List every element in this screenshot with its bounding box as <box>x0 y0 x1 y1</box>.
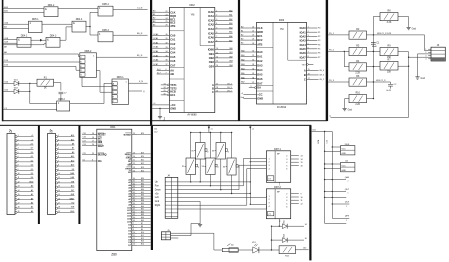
svg-text:CA2: CA2 <box>170 42 176 46</box>
wire R8 out to ground <box>398 16 409 18</box>
wire C05 into bottom-right sheet <box>312 131 333 133</box>
wire D14 long horizontal <box>3 61 79 63</box>
wire R7 out join audio column <box>398 65 409 67</box>
svg-text:4: 4 <box>425 59 426 61</box>
wires to U4 <box>325 163 341 165</box>
DD2 pin OE1 <box>209 52 233 56</box>
svg-text:B34: B34 <box>141 189 144 191</box>
svg-text:22: 22 <box>252 35 254 37</box>
svg-text:2.2K: 2.2K <box>355 72 360 74</box>
wire DD7.2 down to diode row <box>278 219 280 227</box>
svg-text:CH_2: CH_2 <box>227 90 232 92</box>
svg-text:4: 4 <box>18 148 19 150</box>
diode VD1 <box>3 80 29 86</box>
svg-text:DA3: DA3 <box>257 63 263 67</box>
wire P0_1 to R2 <box>328 34 349 36</box>
svg-text:ICA1: ICA1 <box>208 14 214 18</box>
svg-text:33: 33 <box>133 186 135 188</box>
svg-text:17: 17 <box>18 202 20 204</box>
svg-text:P6: P6 <box>318 53 320 55</box>
DD1 pin WR <box>128 163 151 167</box>
DD1 pin NMI <box>82 140 103 144</box>
svg-text:ICA7: ICA7 <box>208 40 214 44</box>
capacitor C1 <box>371 42 380 48</box>
DD2 pin HC1 <box>161 93 176 97</box>
svg-text:22: 22 <box>166 11 168 13</box>
DD2 pin RQR <box>152 14 176 18</box>
wire DD6.1 output 2 to net label <box>129 90 143 92</box>
svg-text:6: 6 <box>18 156 19 158</box>
wire mix node right to J3 (with net text) <box>373 34 424 36</box>
svg-text:GND: GND <box>342 153 347 155</box>
resistor R8 <box>380 11 398 25</box>
svg-text:DA5: DA5 <box>257 72 263 76</box>
IC DD1 (Z80 CPU) <box>97 125 132 256</box>
svg-text:RD: RD <box>128 161 132 163</box>
svg-text:1K: 1K <box>44 88 47 90</box>
svg-text:A3: A3 <box>31 197 33 200</box>
wire to DD8 <box>332 146 340 148</box>
svg-text:OB2: OB2 <box>229 56 233 58</box>
DD2 pin ICA6 <box>208 35 233 40</box>
DD1 pin A0 <box>128 178 150 182</box>
svg-text:12: 12 <box>58 181 60 183</box>
diode VD2 <box>3 88 29 94</box>
DD3 pin DA2 <box>241 58 263 63</box>
svg-text:DD4.4: DD4.4 <box>76 19 83 21</box>
svg-text:B: B <box>212 87 214 91</box>
DD1 pin D7 <box>128 244 150 248</box>
svg-text:+5: +5 <box>31 135 33 137</box>
svg-text:2: 2 <box>18 139 19 141</box>
svg-text:A6: A6 <box>31 210 33 213</box>
svg-text:GND: GND <box>257 97 263 101</box>
svg-text:4: 4 <box>58 148 59 150</box>
svg-text:7: 7 <box>18 160 19 162</box>
svg-text:OCA3: OCA3 <box>153 46 158 49</box>
wire C08 to DD4.1 input 1 <box>3 39 17 41</box>
DD2 pin ICA0 <box>208 9 233 14</box>
svg-text:7: 7 <box>348 181 349 183</box>
J5 wires <box>171 232 214 234</box>
svg-text:X3: X3 <box>202 166 204 168</box>
svg-text:C: C <box>304 78 306 82</box>
svg-text:15: 15 <box>18 194 20 196</box>
DD3 pin IOA3 <box>300 39 321 43</box>
svg-text:34: 34 <box>252 68 254 70</box>
svg-text:VCC: VCC <box>342 148 347 150</box>
gate DD4.4 <box>72 19 86 32</box>
svg-text:+12: +12 <box>30 144 33 146</box>
svg-text:17: 17 <box>92 141 94 143</box>
svg-text:F_N: F_N <box>139 81 143 83</box>
DD1 pin A7 <box>128 197 150 201</box>
svg-text:45: 45 <box>133 220 135 222</box>
wire A15 to DD4.2 input 2 <box>3 11 44 13</box>
IC U4 regulator <box>341 161 355 172</box>
wires transistor tops to rail <box>199 133 201 143</box>
svg-text:CA5: CA5 <box>170 55 176 59</box>
DD3 pin DA3 <box>241 63 263 68</box>
svg-text:A13: A13 <box>71 164 74 167</box>
DD2 pin CA0 <box>152 33 176 38</box>
DD1 pin A1 <box>128 181 150 185</box>
DD1 pin A2 <box>128 183 150 187</box>
sheet divider bar (top, x=327) <box>326 0 328 121</box>
svg-text:B38: B38 <box>141 200 144 202</box>
svg-text:CH_4: CH_4 <box>319 70 324 72</box>
svg-text:C11: C11 <box>154 128 157 130</box>
svg-text:10: 10 <box>305 238 307 240</box>
svg-text:P0_1: P0_1 <box>329 33 335 35</box>
power rail wire y=125.5 across bottom sheets <box>0 125 311 126</box>
svg-text:B33: B33 <box>141 186 144 188</box>
wire bus row to secondary column <box>325 196 347 198</box>
svg-text:B30: B30 <box>141 178 144 180</box>
svg-text:BC2: BC2 <box>170 21 176 25</box>
DD2 pin ICA1 <box>208 14 233 19</box>
gate DD5.2 <box>57 99 70 111</box>
svg-text:KA5: KA5 <box>241 72 245 75</box>
DD2 pin TST1 <box>161 83 177 87</box>
DD3 pin IOA6 <box>300 51 321 55</box>
svg-text:37: 37 <box>252 82 254 84</box>
svg-text:A8: A8 <box>72 143 74 146</box>
svg-text:17: 17 <box>308 78 310 80</box>
DD1 pin M1 <box>128 170 150 174</box>
svg-text:ICA5: ICA5 <box>208 31 214 35</box>
IC DD7.2 counter <box>266 186 290 223</box>
wire osc to DD6.1 input <box>96 70 100 72</box>
DD2 pin CA2 <box>152 41 176 46</box>
svg-text:10: 10 <box>133 232 135 234</box>
svg-text:CA6: CA6 <box>170 59 176 63</box>
svg-text:8: 8 <box>308 56 309 58</box>
svg-text:31: 31 <box>166 38 168 40</box>
svg-text:YM: YM <box>280 28 284 31</box>
DD1 pin A15 <box>127 220 150 224</box>
svg-text:ICA3: ICA3 <box>208 23 214 27</box>
svg-text:42: 42 <box>133 211 135 213</box>
svg-text:5: 5 <box>216 28 217 30</box>
svg-text:A0: A0 <box>31 185 33 188</box>
wire DD5.1 output to DD4.4 <box>42 23 72 25</box>
svg-text:9: 9 <box>251 86 252 88</box>
DD3 pin DA1 <box>241 54 263 59</box>
svg-text:1: 1 <box>308 27 309 29</box>
svg-text:KA6: KA6 <box>241 76 245 79</box>
sheet border: top sheets bottom edge <box>2 120 327 121</box>
svg-text:TST2: TST2 <box>170 86 177 90</box>
svg-text:A_7: A_7 <box>157 72 160 75</box>
secondary bus vertical <box>331 132 333 219</box>
diode VD4 <box>272 234 307 242</box>
svg-text:IOA7: IOA7 <box>300 55 307 59</box>
wire R9 out to audio column <box>398 51 409 53</box>
wires up to DD7.1 inputs <box>243 158 245 185</box>
svg-text:19: 19 <box>18 211 20 213</box>
svg-text:B8: B8 <box>141 226 143 228</box>
sheet divider bar (top, x=151) <box>150 0 152 126</box>
svg-text:39: 39 <box>133 203 135 205</box>
DD7.2 output wires <box>291 193 299 195</box>
svg-text:17: 17 <box>58 202 60 204</box>
svg-text:OB3: OB3 <box>229 61 233 63</box>
DD1 pin D3 <box>128 232 150 236</box>
svg-text:+5: +5 <box>241 93 243 95</box>
svg-text:B23: B23 <box>141 167 144 169</box>
svg-text:32: 32 <box>133 183 135 185</box>
gate DD4.1 <box>17 35 31 47</box>
DD2 pin ICA4 <box>208 26 233 31</box>
sheet divider bar (bottom, x=79) <box>78 125 80 224</box>
svg-text:GND: GND <box>70 211 75 213</box>
sheet border: top-left sheet left edge <box>2 0 4 121</box>
DD2 pin CA7 <box>152 63 176 68</box>
wire VD node down to DD5.2 input <box>29 91 31 103</box>
svg-text:A10: A10 <box>71 159 74 162</box>
svg-text:RQR: RQR <box>170 14 176 18</box>
svg-text:D3: D3 <box>31 173 33 175</box>
svg-text:OE1: OE1 <box>209 52 215 56</box>
svg-text:6: 6 <box>216 32 217 34</box>
svg-text:2: 2 <box>58 139 59 141</box>
svg-text:A4: A4 <box>31 201 33 204</box>
connector J3 <box>425 44 445 61</box>
DD2 pin ICA5 <box>208 31 233 36</box>
wire J4 row to DD7.2 input <box>265 196 267 198</box>
svg-text:&: & <box>47 37 49 41</box>
svg-text:CH_3: CH_3 <box>319 75 324 77</box>
svg-text:1: 1 <box>346 206 347 208</box>
svg-text:15: 15 <box>58 194 60 196</box>
node join of VD1/VD2 <box>29 83 31 91</box>
svg-text:13: 13 <box>164 84 166 86</box>
svg-text:&: & <box>18 37 20 41</box>
svg-text:8: 8 <box>133 226 134 228</box>
DD3 pin DA7 <box>241 81 263 86</box>
net stub QF8 <box>332 216 349 223</box>
svg-text:B1: B1 <box>153 14 155 16</box>
svg-text:YM: YM <box>191 13 195 16</box>
sheet divider bar (top, x=239) <box>238 0 240 121</box>
DD2 pin CA6 <box>152 59 176 64</box>
sheet divider bar (bottom, x=152) <box>151 125 153 250</box>
svg-text:9: 9 <box>301 194 302 196</box>
svg-text:P2: P2 <box>318 36 320 38</box>
wire mix node to R8 <box>373 16 380 18</box>
svg-text:IOA6: IOA6 <box>300 51 307 55</box>
svg-text:B13: B13 <box>141 241 144 243</box>
DD1 pin A11 <box>127 209 150 213</box>
DD3 pin IOA5 <box>300 47 321 51</box>
svg-text:23: 23 <box>133 133 135 135</box>
svg-text:P0_3: P0_3 <box>329 80 335 82</box>
svg-text:A11: A11 <box>71 155 74 158</box>
svg-text:18: 18 <box>18 207 20 209</box>
wire R10 left to ground <box>345 98 349 100</box>
svg-text:Gnd: Gnd <box>412 29 417 31</box>
svg-text:B4: B4 <box>153 25 155 27</box>
svg-text:3: 3 <box>308 35 309 37</box>
gate DD4.2 <box>44 5 58 17</box>
wire DD4.4 output branches to DD5.4 and DD5.3 <box>86 26 90 28</box>
svg-text:26: 26 <box>92 133 94 135</box>
DD1 pin INT <box>82 137 102 141</box>
svg-text:HC1: HC1 <box>170 93 176 97</box>
DD2 pin OE3 <box>209 60 233 64</box>
svg-text:12: 12 <box>301 203 303 205</box>
svg-text:X6: X6 <box>212 151 214 153</box>
net bus vertical <box>324 132 326 222</box>
svg-text:B31: B31 <box>141 181 144 183</box>
svg-text:14: 14 <box>164 87 166 89</box>
resistor R1 <box>37 77 54 89</box>
svg-text:C17: C17 <box>83 140 86 142</box>
svg-text:19: 19 <box>216 91 218 93</box>
sheet divider bar (bottom, x=310) <box>309 125 311 260</box>
IC DD7.1 counter <box>266 148 290 187</box>
svg-text:1: 1 <box>58 135 59 137</box>
DD2 pin CLK <box>152 10 175 14</box>
svg-text:MREQ: MREQ <box>125 154 132 156</box>
DD2 pin A <box>212 83 233 87</box>
svg-text:A1: A1 <box>231 244 233 247</box>
DD1 pin A10 <box>127 206 150 210</box>
svg-text:ICA4: ICA4 <box>208 27 214 31</box>
svg-text:KA1: KA1 <box>229 14 232 17</box>
svg-text:WR: WR <box>128 165 132 167</box>
svg-text:14: 14 <box>305 224 307 226</box>
wire R6 out to node (with net text) <box>367 81 391 83</box>
DD3 pin BC1 <box>241 34 263 38</box>
svg-text:A9: A9 <box>72 151 74 154</box>
svg-text:VD4: VD4 <box>284 234 286 238</box>
gate DD5.1 <box>29 19 43 32</box>
svg-text:14: 14 <box>18 190 20 192</box>
svg-text:30: 30 <box>166 34 168 36</box>
DD1 pin D4 <box>128 235 150 239</box>
svg-text:D2: D2 <box>31 160 33 162</box>
svg-text:21: 21 <box>252 31 254 33</box>
svg-text:D4: D4 <box>31 177 33 179</box>
resistor R9 <box>380 46 398 60</box>
capacitor C2 <box>386 82 397 92</box>
svg-text:CH_3: CH_3 <box>227 87 232 89</box>
svg-text:B11: B11 <box>141 235 144 237</box>
DD2 pin CA1 <box>152 37 176 42</box>
wire DD6.1 output 1 to net label <box>129 82 148 84</box>
svg-text:Gnd: Gnd <box>155 201 160 203</box>
svg-text:14: 14 <box>133 244 135 246</box>
svg-text:OB4: OB4 <box>229 65 233 67</box>
connector J5 <box>161 230 170 240</box>
ground <box>198 223 202 227</box>
svg-text:33: 33 <box>252 64 254 66</box>
svg-text:X5: X5 <box>191 151 193 153</box>
svg-text:NMI: NMI <box>98 141 103 144</box>
wire DD4.3 output to DD4.4 input 2 <box>60 39 66 41</box>
svg-text:3: 3 <box>425 55 426 57</box>
svg-text:B3: B3 <box>241 39 243 41</box>
svg-text:15: 15 <box>301 162 303 164</box>
DD2 pin +CC <box>152 103 175 107</box>
svg-text:1: 1 <box>216 10 217 12</box>
svg-text:DD1: DD1 <box>110 125 116 129</box>
svg-text:22: 22 <box>133 163 135 165</box>
wire R1 output right <box>54 82 61 84</box>
DD3 pin CLK <box>241 26 263 30</box>
svg-text:12: 12 <box>18 181 20 183</box>
DD3 pin B <box>304 73 324 77</box>
fuse FU1 <box>222 244 238 253</box>
DD3 pin DA0 <box>241 50 263 55</box>
svg-text:CA0: CA0 <box>170 33 176 37</box>
svg-text:X4: X4 <box>223 166 225 168</box>
wire P0_2 to R5 <box>328 50 349 52</box>
svg-text:KA7: KA7 <box>229 39 232 42</box>
svg-text:8: 8 <box>58 165 59 167</box>
DD1 pin A8 <box>128 200 150 204</box>
wire VD1 row to R1 <box>30 82 37 84</box>
gate DD5.3 <box>98 30 113 42</box>
svg-text:14: 14 <box>301 159 303 161</box>
svg-text:BUSAK: BUSAK <box>124 133 132 136</box>
svg-text:KA2: KA2 <box>241 58 245 61</box>
svg-text:GND: GND <box>342 170 347 172</box>
svg-text:C26: C26 <box>83 133 86 135</box>
svg-text:46nF: 46nF <box>372 46 378 48</box>
svg-text:C1_N: C1_N <box>137 7 143 9</box>
DD2 pin AA <box>157 68 174 73</box>
svg-text:15K: 15K <box>387 71 392 73</box>
DD3 pin BC2 <box>241 38 263 42</box>
svg-text:DA1: DA1 <box>257 55 263 59</box>
svg-text:P0_2: P0_2 <box>329 50 335 52</box>
svg-text:KA3: KA3 <box>229 22 232 25</box>
svg-text:A_6: A_6 <box>157 68 160 71</box>
svg-text:25: 25 <box>92 153 94 155</box>
svg-text:A: A <box>212 83 214 87</box>
svg-text:B36: B36 <box>141 195 144 197</box>
svg-text:C6: C6 <box>83 159 85 161</box>
DD2 pin IOB0 <box>208 48 233 52</box>
svg-text:IOB0: IOB0 <box>208 48 215 52</box>
svg-text:30: 30 <box>252 51 254 53</box>
DD1 pin D6 <box>128 241 150 245</box>
DD3 pin GND <box>240 97 263 101</box>
svg-text:B19: B19 <box>141 152 144 154</box>
svg-text:P5: P5 <box>318 48 320 50</box>
svg-text:IOA3: IOA3 <box>300 39 307 43</box>
svg-text:37: 37 <box>166 64 168 66</box>
DD2 pin CA4 <box>152 50 176 55</box>
collector rail wire y=132.5 <box>191 132 232 134</box>
DD2 pin BC2 <box>152 21 176 25</box>
DD1 pin BUSRQ <box>82 153 107 157</box>
svg-text:KA4: KA4 <box>241 67 245 70</box>
svg-text:KA0: KA0 <box>229 9 232 12</box>
junction column for diodes <box>271 226 273 250</box>
svg-text:KA3: KA3 <box>241 63 245 66</box>
wire DD6.2 output to net label <box>96 56 147 58</box>
svg-text:0R03 C2_R: 0R03 C2_R <box>376 80 386 82</box>
svg-text:TST: TST <box>302 64 307 66</box>
svg-text:NMI: NMI <box>71 194 75 196</box>
svg-text:DD2: DD2 <box>189 3 195 7</box>
svg-text:B2: B2 <box>241 35 243 37</box>
resistor R4 <box>349 61 367 75</box>
